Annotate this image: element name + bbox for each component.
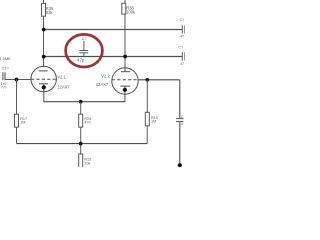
resistor R24 (tail upper) [79,114,83,127]
svg-text:100k: 100k [126,9,136,14]
wire grid V2.2 right [138,79,180,81]
svg-text:47: 47 [180,62,184,66]
node tail junction bottom [79,142,83,146]
svg-text:10k: 10k [84,161,90,165]
svg-text:V2.2: V2.2 [101,73,110,78]
node grid V2.2 junction [145,78,149,82]
svg-text:1M: 1M [20,121,25,125]
wire NFB lower [179,122,181,165]
wire R17 bottom [16,127,18,143]
wire plate bus V2.1 (top horizontal, y=29.2) [44,29,183,31]
triode V2.2 [112,68,138,102]
svg-text:82k: 82k [46,10,54,15]
red annotation circle [66,34,103,67]
wire ground bus bottom [17,143,148,145]
node junction V2.2 plate [123,55,127,59]
wire grid V2.1 down [16,80,18,115]
svg-text:1M: 1M [151,120,156,124]
node junction left on bus2 [42,55,46,59]
svg-text:470: 470 [84,121,90,125]
svg-text:12AX7: 12AX7 [96,82,109,87]
resistor R36 (left plate resistor, top) [42,0,46,67]
capacitor C1 (top output coupling, right edge) [182,25,185,33]
resistor R38 (right plate resistor, top) [122,0,126,69]
wire NFB vertical [179,80,181,119]
capacitor C2 (bottom output coupling, right edge) [182,52,185,60]
svg-text:C?: C? [180,18,185,22]
node plate V2.1 junction [42,28,46,32]
triode V2.1 [31,66,56,102]
wire tail down [80,102,82,114]
svg-text:???: ??? [1,85,7,89]
svg-text:12AX7: 12AX7 [57,84,70,89]
svg-text:C: C [181,115,184,119]
node tail junction top [79,100,83,104]
wire R19 top [146,80,148,113]
node NFB bottom [178,163,182,167]
cathode dot V2.1 [42,85,46,89]
node grid V2.1 junction [15,78,19,82]
svg-text:1.0ME: 1.0ME [0,56,11,61]
svg-text:47: 47 [180,35,184,39]
svg-text:47p: 47p [77,57,85,62]
svg-text:4: 4 [181,122,183,126]
svg-text:V2.1: V2.1 [57,74,66,79]
capacitor NFB [176,119,183,122]
wire cathode bus [44,101,125,103]
wire R24 bottom [80,127,82,154]
cathode dot V2.2 [123,88,127,92]
wire plate bus V2.2 (second horizontal, y=56.2) [44,56,183,58]
svg-text:C?: C? [82,37,87,41]
capacitor C? 47p (circled) [79,41,88,57]
resistor R15 (tail lower, cut by bottom edge) [79,154,83,168]
resistor R17 (left grid resistor) [15,114,19,127]
svg-text:C1?: C1? [2,65,10,70]
resistor R19 (right grid resistor) [145,112,149,126]
svg-text:C?: C? [179,46,184,50]
wire R19 bottom [146,126,148,144]
capacitor C17 (input, left edge) [3,72,31,80]
